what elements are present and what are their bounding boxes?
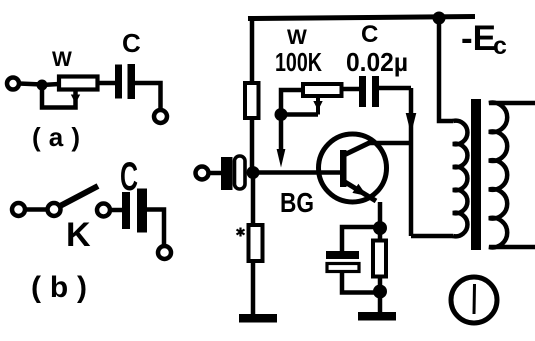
wire: collector out [368,141,411,146]
node: bottom junction dot [373,285,387,299]
transformer T secondary winding [489,103,535,248]
wire [135,83,161,110]
resistor Re [373,241,386,277]
wire [110,208,122,213]
wire: supply dot down to transformer primary [439,18,453,121]
svg-text:c: c [493,32,507,60]
svg-text:BG: BG [280,187,314,218]
wiper arrow of W [313,101,322,111]
capacitor C (main) plate 2 [372,76,379,107]
wire: emitter down [378,202,383,228]
wire: wiper to node [281,112,318,117]
wire [25,207,47,212]
wire [378,276,383,313]
svg-text:100K: 100K [275,47,322,77]
wire: C to collector column [379,86,411,91]
ground (R2) [239,314,277,323]
resistor R2 [249,225,263,261]
transformer T primary winding [453,121,467,237]
input terminal (open circle) [196,167,209,180]
wire [96,81,115,86]
wire: -Ec supply top rail [248,17,475,19]
transistor BG circle [319,134,387,202]
node: W junction dot [275,108,288,121]
asterisk mark [237,228,245,237]
wire: left drop from rail to R1 [250,19,255,86]
wire: cap to bottom node [342,272,380,293]
switch K pivot circle [48,203,61,216]
capacitor C (a) plate 2 [128,64,136,99]
node: base junction dot [247,166,260,179]
potentiometer W (main) body [303,84,342,96]
svg-text:C: C [361,21,378,48]
capacitor C (main) plate 1 [359,76,366,107]
wire: R2 to ground [251,261,256,315]
svg-text:C: C [120,155,138,199]
transistor BG collector stroke [344,143,370,156]
transistor BG base bar [340,150,347,187]
terminal A1 (input, open circle) [7,78,19,90]
transistor BG emitter arrow [352,184,367,196]
arrow (signal down collector column) [406,113,417,134]
wire [42,84,59,85]
wire [147,210,164,247]
transformer T core [471,99,481,250]
resistor R1 [245,83,259,118]
capacitor C (a) plate 1 [115,65,122,99]
wire: W left end down to node [281,90,303,112]
svg-text:0.02µ: 0.02µ [346,47,408,77]
wire with arrow down to base [279,115,284,153]
wire: primary bottom to collector column [411,234,453,239]
node (junction dot) [37,80,48,91]
digit 1 stroke [473,284,477,314]
wiper wire of W [316,96,320,115]
svg-text:(a): (a) [32,122,80,152]
wiper arrow of W (a) [71,95,80,104]
terminal A2 (output, open circle) [154,110,167,123]
svg-text:-E: -E [461,19,496,58]
capacitor C (b) plate 2 [137,189,147,233]
bypass capacitor plate 1 [326,251,359,259]
coupling capacitor plate 2 (hollow) [235,156,246,189]
wire [208,171,222,176]
wire (rheostat tie: node to wiper) [42,85,76,108]
capacitor C (b) plate 1 [122,192,130,229]
wire: W to C [341,87,359,92]
potentiometer W (a) body [59,77,98,90]
svg-text:(b): (b) [31,271,87,304]
svg-text:W: W [287,26,307,49]
ground (emitter) [358,312,396,321]
svg-text:K: K [66,216,91,254]
terminal B1 (open circle) [12,203,25,216]
figure number badge circle 1 [451,277,497,323]
node: emitter junction dot [373,221,387,235]
wire: collector column [409,88,414,236]
transistor BG emitter stroke [345,182,376,201]
wire [19,84,42,85]
arrow (signal into base) [277,149,286,168]
wire: base wire [253,170,341,175]
wire: base node down to R2 [251,173,256,227]
svg-text:C: C [122,28,141,58]
wire: R1 to base node [250,117,255,172]
switch K blade [60,186,98,206]
wire: to bypass cap [342,227,380,252]
bypass capacitor plate 2 (hollow) [327,264,359,272]
svg-text:W: W [52,48,72,71]
node: supply junction dot [433,12,446,25]
wire: emitter node to Re [378,228,383,242]
terminal B2 (open circle) [158,246,171,259]
coupling capacitor plate 1 [221,157,233,190]
switch K throw circle [97,204,110,217]
